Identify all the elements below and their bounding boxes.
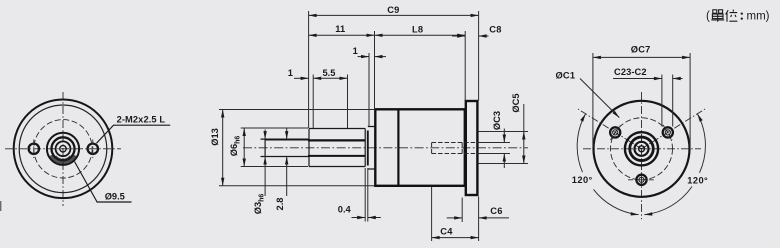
svg-text:1: 1: [288, 68, 293, 78]
dim 11: [309, 34, 375, 36]
svg-text:11: 11: [335, 24, 345, 34]
CJK dan (unit) glyph drawn: [711, 10, 724, 22]
bolt circle dashed: [611, 118, 673, 180]
horizontal centerline: [583, 148, 701, 150]
shaft through sleeve (thick lines): [308, 139, 365, 141]
dim D13: [222, 110, 224, 186]
dim C9: [309, 14, 479, 16]
dim D6: [243, 128, 245, 167]
dim L8: [375, 34, 466, 36]
svg-text:C9: C9: [387, 5, 399, 15]
svg-text:mm): mm): [747, 11, 770, 23]
right mounting hole: [88, 144, 98, 154]
svg-text:ØC7: ØC7: [631, 44, 651, 54]
hidden bore (dashed): [432, 143, 479, 154]
dim C4 ext: [431, 187, 433, 241]
sleeve (D6) outline: [309, 129, 365, 167]
CJK wei (position) glyph drawn: [726, 10, 738, 22]
svg-text:(: (: [706, 11, 710, 23]
horizontal centerline: [5, 148, 121, 150]
shaft flat (thick top line): [265, 139, 309, 141]
svg-text:2.8: 2.8: [275, 198, 285, 211]
DC7 ext lines: [592, 53, 594, 148]
hatch in shaft section (lower sector): [51, 155, 75, 162]
bore step (dashed): [461, 143, 463, 154]
vertical centerline: [641, 92, 643, 219]
middle view dimension texts: [210, 5, 521, 237]
bolt circle (dashed): [34, 120, 92, 178]
bore extension lines right: [478, 143, 510, 154]
svg-text:2-M2x2.5 L: 2-M2x2.5 L: [117, 115, 166, 125]
dim C6 ext + arrows: [461, 198, 463, 223]
radial centerline upper-left hole: [578, 109, 642, 149]
dim C23-C2: [613, 78, 662, 80]
vertical centerline: [62, 92, 64, 206]
hole upper-right: [663, 127, 673, 137]
svg-text:0.4: 0.4: [338, 204, 352, 214]
120 deg arc right: [644, 187, 692, 215]
label 2-M2x2.5 L with leader to right hole: [97, 115, 171, 144]
svg-text:1: 1: [353, 46, 358, 56]
leader DC1: [580, 79, 619, 118]
right view dimensions: [580, 53, 690, 148]
svg-text:C4: C4: [440, 226, 453, 236]
dim 5.5: [313, 77, 347, 79]
hole bottom: [636, 175, 646, 185]
hole upper-left: [610, 127, 620, 137]
svg-text:L8: L8: [412, 24, 423, 34]
C23-C2 ext lines: [661, 75, 663, 127]
hole crosshair ticks: [611, 125, 621, 140]
dim DC7: [593, 56, 690, 58]
main centerline: [243, 147, 528, 149]
120 deg arc left: [577, 114, 585, 172]
svg-text:ØC5: ØC5: [511, 93, 521, 112]
rear flange: [466, 101, 478, 195]
svg-text:C6: C6: [490, 206, 502, 216]
label Ø9.5 with leader to bolt circle: [75, 162, 132, 203]
svg-text:Ø13: Ø13: [210, 128, 220, 146]
edge artifact: [0, 201, 1, 211]
dim 0.4 ext + arrows: [364, 168, 366, 222]
center circles: [625, 132, 658, 165]
svg-text:5.5: 5.5: [323, 68, 336, 78]
svg-text:ØC3: ØC3: [492, 111, 502, 130]
svg-text:C23-C2: C23-C2: [614, 67, 647, 77]
dim DC3 (outside arrows): [503, 129, 505, 143]
extension lines vertical (top dims): [308, 11, 310, 128]
outer circle: [14, 100, 113, 199]
svg-text:120°: 120°: [687, 175, 708, 185]
svg-text:Ø9.5: Ø9.5: [105, 192, 125, 202]
0.4 spacer: [367, 131, 369, 166]
dim 1 (flat start): [294, 77, 309, 79]
pilot boss: [368, 127, 375, 170]
dim 1 (boss) outside arrows: [358, 56, 370, 58]
svg-text:120°: 120°: [572, 175, 593, 185]
svg-text:ØC1: ØC1: [556, 70, 576, 80]
right view texts: [556, 44, 709, 185]
shaft tip (D3) outline: [261, 139, 310, 156]
inner rim circle: [19, 105, 107, 193]
fullwidth colon: [741, 12, 743, 14]
extension lines left dims: [219, 109, 374, 111]
svg-text:C8: C8: [489, 25, 501, 35]
body front section line: [397, 109, 399, 186]
motor outline stub: [478, 132, 528, 164]
gearhead body: [375, 109, 465, 186]
left mounting hole: [29, 144, 39, 154]
dim DC5: [523, 104, 525, 164]
unit note top right: [706, 10, 770, 23]
center shaft boss circles: [47, 133, 79, 165]
dim 2.8 (outside arrows): [286, 128, 288, 139]
radial centerline upper-right hole: [642, 109, 706, 149]
outer circle: [594, 101, 690, 197]
dim C8 (outside arrows): [452, 35, 465, 37]
dim D3 (outside arrows): [264, 130, 266, 140]
